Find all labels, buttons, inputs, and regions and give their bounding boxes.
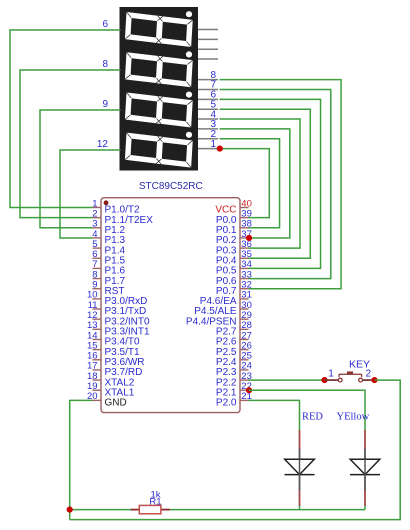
display digit 4 decimal point — [186, 132, 192, 138]
IC pin 35 stub — [240, 257, 249, 259]
display pin 6 stub — [198, 98, 218, 100]
IC pin 7 stub — [93, 267, 102, 269]
IC pin 8 stub — [93, 278, 102, 280]
IC pin 9 stub — [93, 288, 102, 290]
IC pin 20 stub — [93, 399, 102, 401]
IC pin 27 stub — [240, 338, 249, 340]
IC pin 22 stub — [240, 389, 249, 391]
IC pin 4 stub — [93, 237, 102, 239]
svg-text:8: 8 — [102, 59, 108, 70]
IC pin 5 stub — [93, 247, 102, 249]
wire display pin 6 to IC pin 1 — [10, 30, 121, 208]
resistor R1 lead left — [131, 509, 140, 511]
IC pin 40 stub — [240, 207, 249, 209]
wire display pin 12 to IC pin 4 — [60, 150, 121, 238]
display pin 1 stub — [198, 148, 218, 150]
display digit 2 decimal point — [186, 51, 192, 57]
IC pin 10 stub — [93, 298, 102, 300]
junction on display pin 1 wire — [217, 146, 223, 152]
svg-text:YEllow: YEllow — [337, 411, 370, 422]
wire display pin 9 to IC pin 3 — [40, 110, 121, 228]
display digit 4 (7-seg, rotated) — [125, 133, 193, 168]
IC pin 18 stub — [93, 379, 102, 381]
ground rail through resistor — [70, 509, 131, 511]
display pin 2 stub — [198, 138, 218, 140]
wire display pin 6 to IC pin 34 — [220, 99, 321, 268]
junction at IC pin 22 — [246, 387, 252, 393]
svg-text:1: 1 — [328, 369, 334, 380]
IC pin 30 stub — [240, 308, 249, 310]
IC pin 13 stub — [93, 328, 102, 330]
display pin 5 stub — [198, 108, 218, 110]
display digit 3 (7-seg, rotated) — [125, 92, 193, 127]
svg-text:P2.0: P2.0 — [216, 398, 237, 409]
junction at rail split — [67, 507, 73, 513]
IC pin 19 stub — [93, 389, 102, 391]
wire display pin 5 to IC pin 35 — [220, 109, 311, 258]
display pin 4 stub — [198, 118, 218, 120]
KEY pin 1 lead — [325, 379, 339, 381]
display digit 2 (7-seg, rotated) — [125, 52, 193, 87]
IC pin 37 stub — [240, 237, 249, 239]
junction at IC pin 37 — [246, 235, 252, 241]
junction at KEY pin 1 — [321, 377, 327, 383]
IC pin 28 stub — [240, 328, 249, 330]
IC pin 1 marker dot — [104, 200, 109, 205]
wire display pin 8 to IC pin 32 — [220, 80, 342, 289]
IC pin 26 stub — [240, 349, 249, 351]
wire IC pin 22 to LED YEllow — [249, 390, 366, 430]
svg-text:3: 3 — [210, 119, 216, 130]
svg-text:2: 2 — [210, 129, 216, 140]
LED RED symbol — [285, 459, 315, 474]
svg-text:R1: R1 — [149, 496, 161, 507]
svg-text:5: 5 — [210, 99, 216, 110]
svg-text:6: 6 — [102, 19, 108, 30]
IC pin 12 stub — [93, 318, 102, 320]
IC pin 33 stub — [240, 278, 249, 280]
IC pin 34 stub — [240, 267, 249, 269]
display pin 8 stub — [198, 79, 218, 81]
IC pin 1 stub — [93, 207, 102, 209]
wire KEY pin 2 to ground rail — [70, 380, 401, 520]
svg-text:4: 4 — [210, 109, 216, 120]
svg-text:7: 7 — [210, 80, 216, 91]
wire display pin 3 to IC pin 37 — [220, 129, 290, 238]
wire IC pin 23 to KEY pin 1 — [249, 379, 325, 381]
LED YEllow cathode lead — [364, 475, 366, 490]
LED RED cathode lead — [299, 475, 301, 490]
resistor R1 body — [139, 505, 161, 513]
wire IC pin 21 to LED RED — [249, 400, 300, 430]
svg-text:9: 9 — [102, 99, 108, 110]
wire display pin 1 to IC pin 39 — [220, 149, 270, 218]
display top stub 3 (unconnected) — [198, 48, 218, 50]
display pin 7 stub — [198, 89, 218, 91]
svg-text:12: 12 — [97, 139, 109, 150]
IC pin 29 stub — [240, 318, 249, 320]
svg-text:2: 2 — [366, 369, 372, 380]
IC pin 23 stub — [240, 379, 249, 381]
svg-text:1: 1 — [210, 139, 216, 150]
IC pin 11 stub — [93, 308, 102, 310]
wire display pin 2 to IC pin 38 — [220, 139, 280, 228]
svg-text:STC89C52RC: STC89C52RC — [139, 181, 203, 192]
display digit 3 decimal point — [186, 92, 192, 98]
junction at KEY pin 2 — [371, 377, 377, 383]
display top stub 4 (unconnected) — [198, 58, 218, 60]
IC pin 15 stub — [93, 349, 102, 351]
resistor R1 lead right — [161, 509, 170, 511]
IC pin 2 stub — [93, 217, 102, 219]
svg-text:RED: RED — [302, 411, 323, 422]
IC pin 24 stub — [240, 369, 249, 371]
KEY pin 2 lead — [363, 379, 375, 381]
display top stub 1 (unconnected) — [198, 29, 218, 31]
IC pin 21 stub — [240, 399, 249, 401]
7-segment display DS1 body — [120, 7, 199, 171]
display digit 1 (7-seg, rotated) — [125, 12, 193, 47]
IC pin 16 stub — [93, 359, 102, 361]
svg-text:GND: GND — [105, 398, 127, 409]
wire display pin 8 to IC pin 2 — [20, 70, 121, 218]
IC pin 3 stub — [93, 227, 102, 229]
LED YEllow symbol — [350, 459, 380, 474]
IC pin 31 stub — [240, 298, 249, 300]
IC pin 39 stub — [240, 217, 249, 219]
svg-text:6: 6 — [210, 90, 216, 101]
display digit 1 decimal point — [186, 11, 192, 17]
IC pin 32 stub — [240, 288, 249, 290]
display pin 3 stub — [198, 128, 218, 130]
wire display pin 4 to IC pin 36 — [220, 119, 301, 248]
IC pin 38 stub — [240, 227, 249, 229]
display top stub 2 (unconnected) — [198, 38, 218, 40]
wire display pin 7 to IC pin 33 — [220, 90, 331, 279]
IC pin 14 stub — [93, 338, 102, 340]
KEY switch symbol — [338, 372, 362, 382]
IC pin 25 stub — [240, 359, 249, 361]
svg-text:8: 8 — [210, 70, 216, 81]
LED YEllow anode lead — [364, 430, 366, 449]
IC pin 17 stub — [93, 369, 102, 371]
wire IC pin 20 GND down to rails — [70, 400, 93, 519]
IC U1 STC89C52RC body — [101, 198, 240, 413]
LED RED anode lead — [299, 430, 301, 449]
IC pin 36 stub — [240, 247, 249, 249]
IC pin 6 stub — [93, 257, 102, 259]
